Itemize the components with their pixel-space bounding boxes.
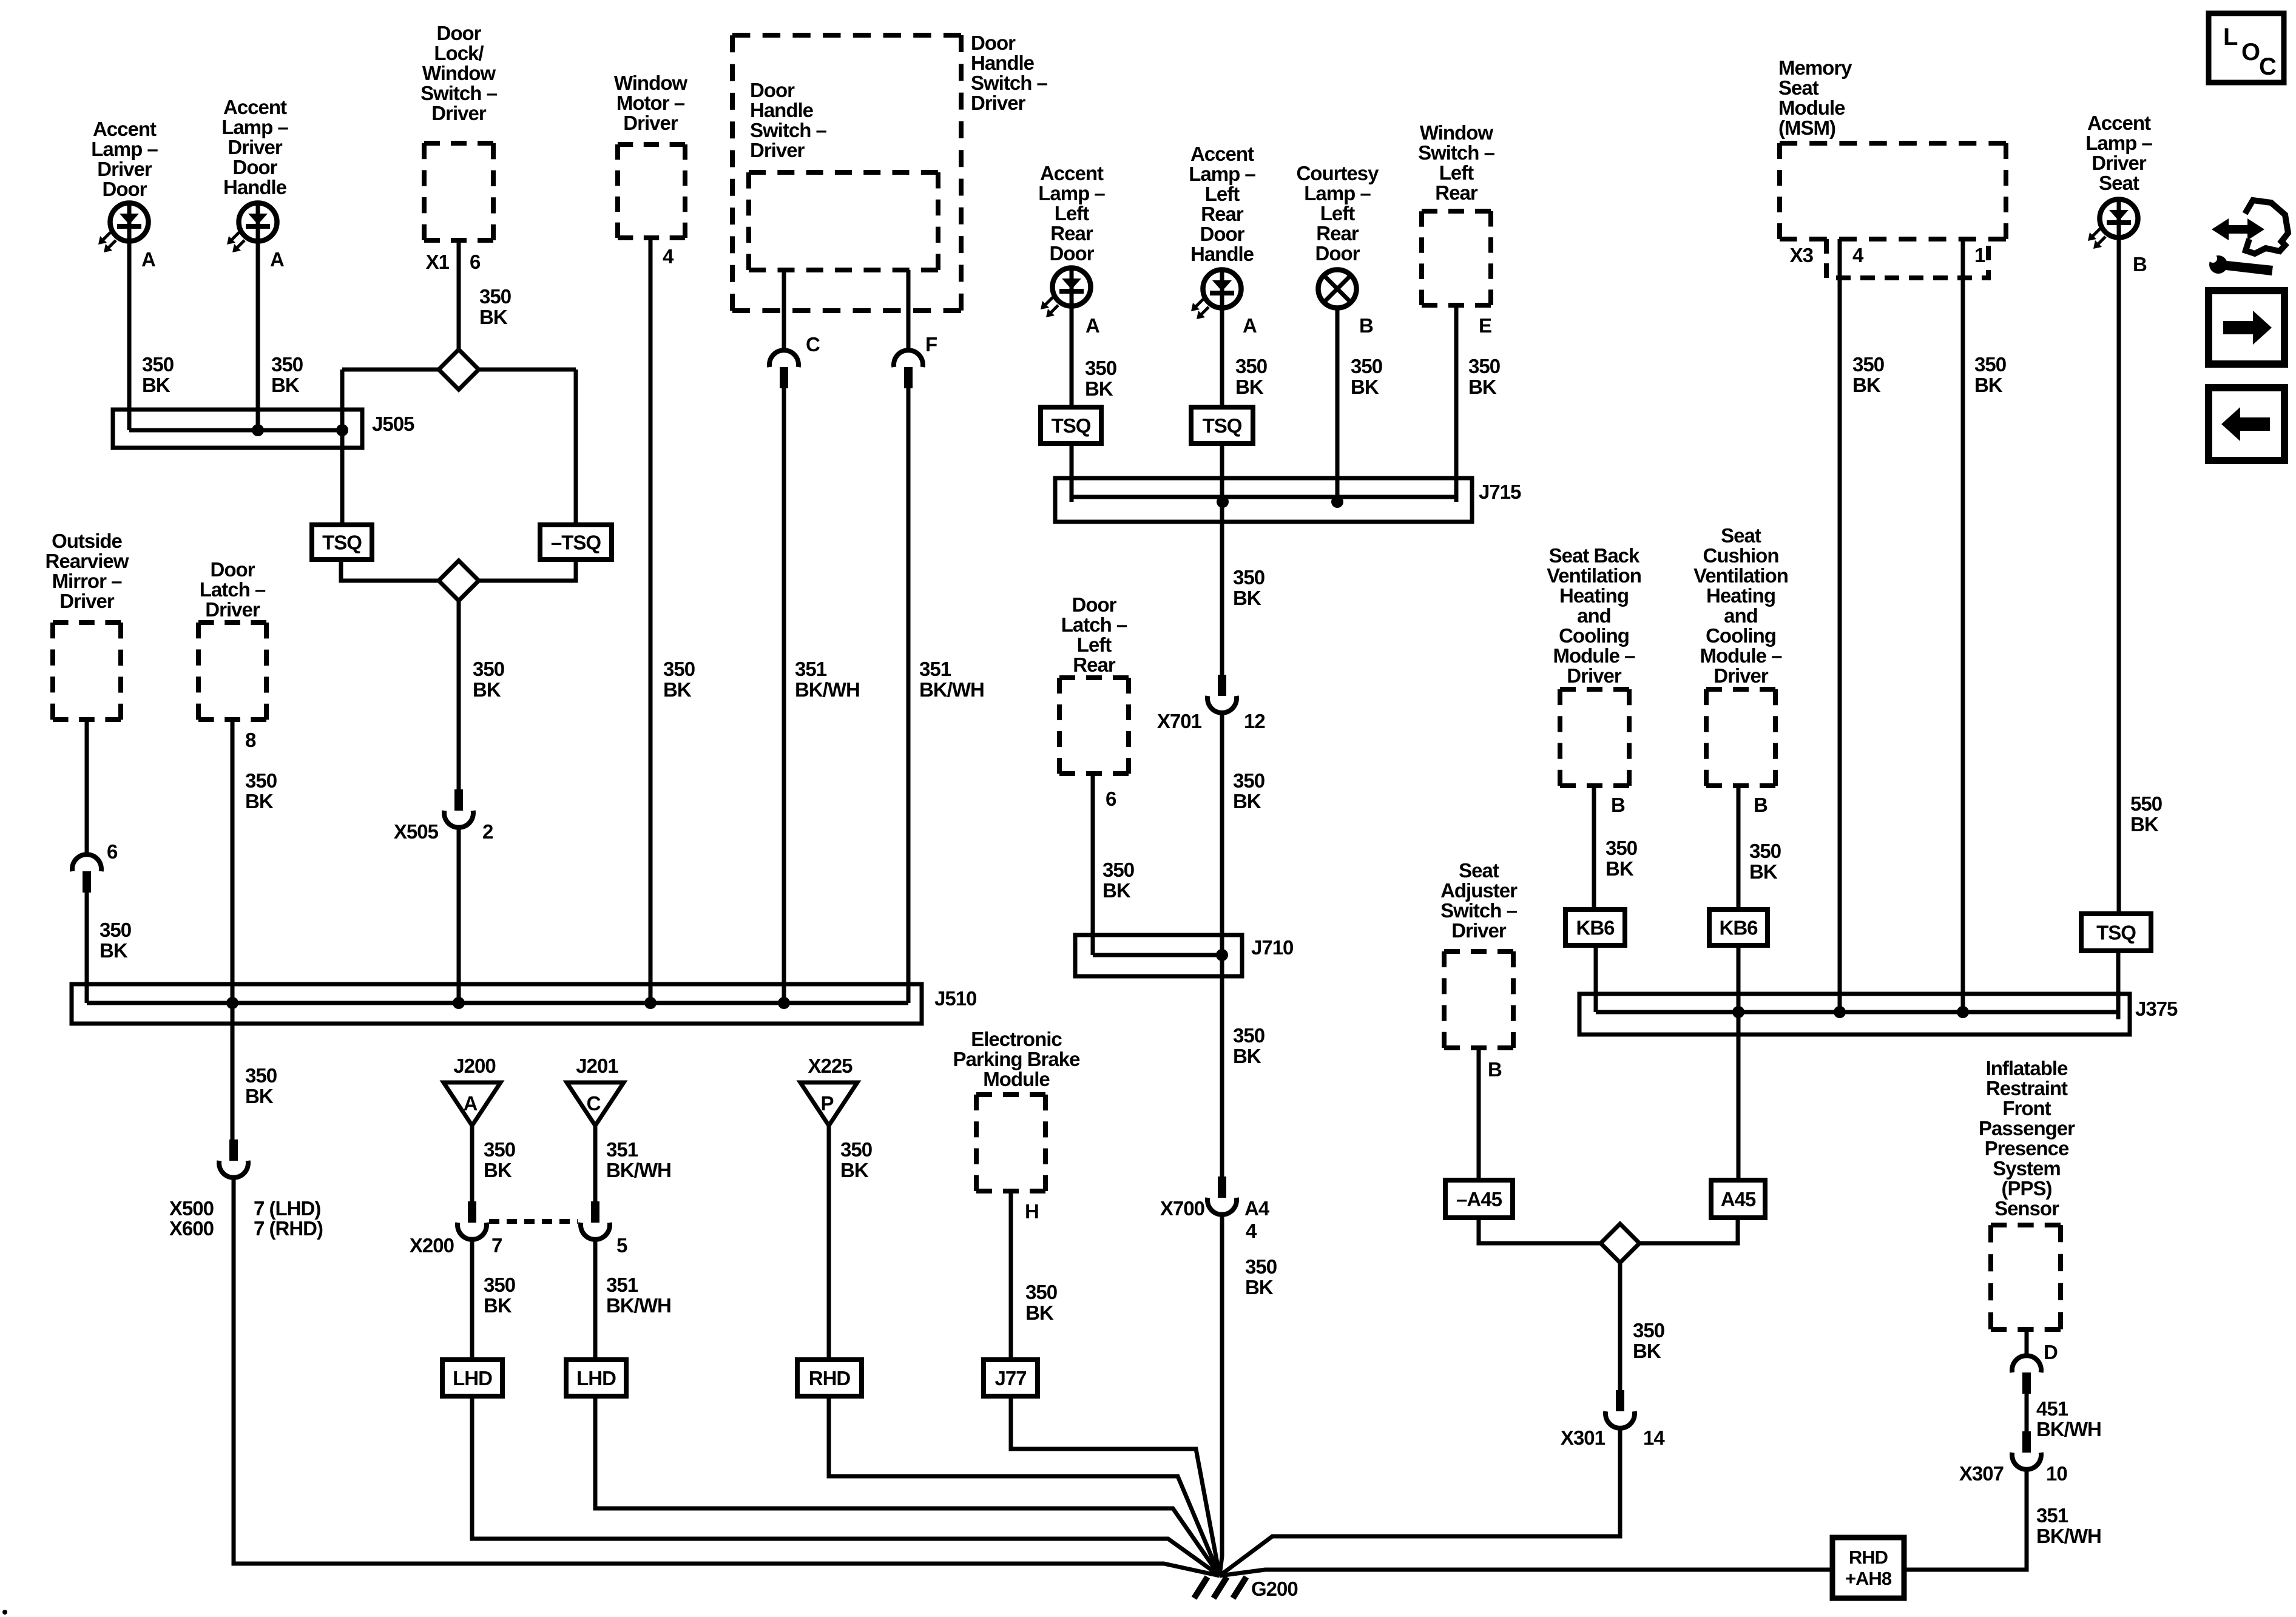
- svg-text:Accent: Accent: [1190, 143, 1254, 165]
- svg-text:F: F: [925, 333, 937, 356]
- svg-text:A: A: [141, 248, 155, 271]
- svg-text:12: 12: [1244, 710, 1265, 732]
- svg-text:350: 350: [1085, 357, 1116, 379]
- svg-text:14: 14: [1643, 1426, 1665, 1449]
- svg-text:BK: BK: [245, 1085, 274, 1107]
- svg-text:Seat: Seat: [1459, 859, 1499, 882]
- svg-text:Lamp –: Lamp –: [221, 116, 288, 138]
- svg-text:350: 350: [1351, 355, 1382, 377]
- svg-text:350: 350: [1749, 840, 1781, 862]
- svg-text:Driver: Driver: [750, 139, 805, 161]
- svg-text:X500: X500: [169, 1197, 214, 1220]
- svg-text:C: C: [587, 1092, 601, 1115]
- svg-text:Inflatable: Inflatable: [1986, 1057, 2068, 1079]
- svg-text:5: 5: [616, 1234, 627, 1257]
- svg-text:X3: X3: [1790, 244, 1814, 266]
- svg-text:Door: Door: [1200, 223, 1245, 245]
- svg-text:Latch –: Latch –: [1061, 613, 1127, 636]
- svg-text:BK: BK: [1974, 374, 2003, 396]
- svg-text:Driver: Driver: [623, 112, 678, 134]
- svg-text:Sensor: Sensor: [1994, 1197, 2059, 1220]
- svg-text:Restraint: Restraint: [1986, 1077, 2068, 1099]
- svg-text:Presence: Presence: [1985, 1137, 2069, 1160]
- svg-text:Door: Door: [211, 558, 255, 581]
- svg-text:Door: Door: [971, 32, 1016, 54]
- svg-text:B: B: [2133, 253, 2147, 275]
- svg-text:Module: Module: [983, 1068, 1050, 1090]
- svg-text:A: A: [270, 248, 284, 271]
- svg-text:X200: X200: [410, 1234, 454, 1257]
- svg-text:Rearview: Rearview: [46, 550, 129, 572]
- svg-text:KB6: KB6: [1576, 917, 1615, 939]
- svg-text:Latch –: Latch –: [200, 578, 266, 601]
- svg-text:Rear: Rear: [1050, 222, 1093, 245]
- svg-text:Lamp –: Lamp –: [1038, 182, 1105, 204]
- svg-text:350: 350: [1235, 355, 1267, 377]
- svg-text:–A45: –A45: [1456, 1188, 1502, 1210]
- svg-text:Cushion: Cushion: [1703, 544, 1779, 567]
- svg-text:A: A: [1243, 314, 1257, 337]
- svg-text:BK: BK: [245, 790, 274, 812]
- svg-text:350: 350: [1974, 353, 2006, 376]
- svg-text:Seat Back: Seat Back: [1549, 544, 1640, 567]
- svg-text:BK: BK: [1852, 374, 1881, 396]
- svg-text:Door: Door: [1315, 242, 1360, 265]
- svg-text:BK: BK: [142, 374, 171, 396]
- svg-text:X301: X301: [1561, 1426, 1606, 1449]
- svg-text:TSQ: TSQ: [322, 532, 362, 554]
- svg-text:B: B: [1359, 314, 1373, 337]
- svg-text:350: 350: [484, 1274, 515, 1296]
- svg-text:A: A: [1086, 314, 1099, 337]
- svg-text:X225: X225: [808, 1055, 853, 1077]
- svg-text:BK: BK: [2130, 813, 2159, 836]
- svg-text:350: 350: [1025, 1281, 1057, 1303]
- svg-text:BK/WH: BK/WH: [606, 1294, 671, 1317]
- svg-text:Front: Front: [2002, 1097, 2051, 1119]
- svg-text:Mirror –: Mirror –: [52, 570, 123, 592]
- svg-text:X600: X600: [169, 1217, 214, 1240]
- svg-text:8: 8: [245, 729, 256, 751]
- svg-text:Rear: Rear: [1435, 181, 1478, 204]
- svg-text:J201: J201: [576, 1055, 618, 1077]
- svg-text:J200: J200: [453, 1055, 495, 1077]
- svg-text:Adjuster: Adjuster: [1440, 879, 1518, 902]
- svg-text:350: 350: [840, 1138, 872, 1161]
- svg-text:350: 350: [1233, 566, 1264, 589]
- svg-text:Window: Window: [614, 72, 687, 94]
- svg-text:350: 350: [1633, 1319, 1664, 1342]
- svg-text:Passenger: Passenger: [1979, 1117, 2075, 1139]
- svg-text:BK/WH: BK/WH: [919, 678, 984, 701]
- svg-text:J505: J505: [372, 413, 414, 435]
- svg-text:C: C: [2259, 53, 2276, 80]
- svg-text:Courtesy: Courtesy: [1296, 162, 1379, 184]
- svg-text:BK: BK: [1633, 1340, 1661, 1362]
- svg-text:Heating: Heating: [1706, 584, 1775, 607]
- svg-text:and: and: [1577, 604, 1611, 627]
- svg-text:2: 2: [482, 820, 493, 843]
- svg-text:Electronic: Electronic: [971, 1028, 1062, 1050]
- svg-text:Switch –: Switch –: [971, 72, 1048, 94]
- svg-text:BK: BK: [1085, 377, 1113, 400]
- svg-text:A: A: [464, 1092, 478, 1115]
- svg-text:Lamp –: Lamp –: [2085, 132, 2152, 154]
- svg-text:KB6: KB6: [1719, 917, 1758, 939]
- svg-text:X701: X701: [1157, 710, 1202, 732]
- svg-text:Handle: Handle: [971, 52, 1035, 74]
- svg-text:Module –: Module –: [1553, 644, 1635, 667]
- svg-text:Door: Door: [750, 79, 795, 101]
- svg-text:P: P: [820, 1092, 833, 1115]
- svg-text:Switch –: Switch –: [420, 82, 498, 104]
- svg-text:and: and: [1724, 604, 1758, 627]
- svg-text:BK: BK: [1468, 376, 1497, 398]
- svg-text:LHD: LHD: [576, 1367, 616, 1389]
- svg-text:Driver: Driver: [431, 102, 487, 124]
- svg-text:Driver: Driver: [97, 158, 152, 180]
- svg-text:J710: J710: [1251, 936, 1293, 959]
- svg-text:Ventilation: Ventilation: [1693, 564, 1788, 587]
- svg-text:Ventilation: Ventilation: [1547, 564, 1641, 587]
- svg-text:J375: J375: [2135, 998, 2178, 1020]
- svg-text:Door: Door: [1050, 242, 1095, 265]
- svg-text:Driver: Driver: [1714, 664, 1769, 687]
- svg-text:Rear: Rear: [1316, 222, 1359, 245]
- svg-text:BK/WH: BK/WH: [795, 678, 860, 701]
- svg-text:350: 350: [479, 285, 511, 308]
- svg-text:10: 10: [2046, 1462, 2067, 1485]
- svg-text:Cooling: Cooling: [1559, 624, 1629, 647]
- svg-text:J715: J715: [1479, 481, 1521, 503]
- svg-text:Driver: Driver: [2092, 152, 2147, 174]
- svg-text:X307: X307: [1959, 1462, 2004, 1485]
- svg-text:BK: BK: [840, 1159, 869, 1181]
- svg-text:BK: BK: [473, 678, 501, 701]
- svg-text:Door: Door: [233, 156, 278, 178]
- svg-text:B: B: [1488, 1058, 1502, 1081]
- svg-text:350: 350: [1606, 837, 1637, 859]
- svg-text:G200: G200: [1251, 1578, 1298, 1600]
- svg-text:O: O: [2241, 39, 2260, 66]
- svg-text:B: B: [1754, 794, 1768, 816]
- svg-text:Left: Left: [1205, 183, 1240, 205]
- svg-text:Switch –: Switch –: [1440, 899, 1518, 922]
- svg-text:Door: Door: [437, 22, 482, 44]
- svg-text:Seat: Seat: [1721, 524, 1761, 547]
- svg-text:X700: X700: [1160, 1197, 1204, 1220]
- svg-text:BK: BK: [1245, 1276, 1274, 1298]
- svg-text:Seat: Seat: [2099, 172, 2139, 194]
- svg-text:Driver: Driver: [228, 136, 283, 158]
- svg-text:D: D: [2044, 1341, 2058, 1363]
- svg-text:7 (RHD): 7 (RHD): [254, 1217, 323, 1240]
- svg-text:350: 350: [245, 1064, 277, 1087]
- svg-text:Module –: Module –: [1700, 644, 1782, 667]
- svg-text:TSQ: TSQ: [1052, 414, 1091, 437]
- svg-text:Driver: Driver: [205, 598, 260, 621]
- svg-text:6: 6: [107, 840, 118, 863]
- svg-text:Cooling: Cooling: [1706, 624, 1776, 647]
- svg-text:350: 350: [1468, 355, 1500, 377]
- svg-text:7 (LHD): 7 (LHD): [254, 1197, 320, 1220]
- svg-text:Accent: Accent: [2087, 112, 2151, 134]
- svg-text:351: 351: [795, 658, 827, 680]
- svg-text:Left: Left: [1055, 202, 1090, 224]
- svg-text:Rear: Rear: [1073, 653, 1116, 676]
- svg-text:Accent: Accent: [1040, 162, 1104, 184]
- svg-text:RHD: RHD: [809, 1367, 851, 1389]
- svg-text:4: 4: [1246, 1220, 1257, 1242]
- svg-text:Lamp –: Lamp –: [1189, 163, 1255, 185]
- svg-text:Left: Left: [1439, 161, 1474, 184]
- svg-text:350: 350: [484, 1138, 515, 1161]
- svg-text:BK: BK: [484, 1294, 512, 1317]
- svg-text:350: 350: [1852, 353, 1884, 376]
- svg-text:351: 351: [919, 658, 951, 680]
- svg-text:Parking Brake: Parking Brake: [953, 1048, 1081, 1070]
- svg-text:L: L: [2223, 24, 2238, 50]
- svg-text:Switch –: Switch –: [1418, 141, 1495, 164]
- svg-text:TSQ: TSQ: [1203, 414, 1242, 437]
- svg-text:6: 6: [1106, 788, 1116, 810]
- svg-text:(PPS): (PPS): [2001, 1177, 2051, 1200]
- svg-text:TSQ: TSQ: [2096, 922, 2136, 944]
- svg-text:–TSQ: –TSQ: [551, 532, 601, 554]
- svg-text:J77: J77: [994, 1367, 1026, 1389]
- svg-text:BK/WH: BK/WH: [2036, 1418, 2101, 1440]
- svg-text:Window: Window: [1420, 121, 1493, 144]
- svg-text:+AH8: +AH8: [1845, 1568, 1892, 1589]
- svg-text:X505: X505: [394, 820, 439, 843]
- svg-text:BK: BK: [271, 374, 300, 396]
- svg-text:4: 4: [663, 245, 674, 268]
- svg-text:RHD: RHD: [1849, 1547, 1888, 1568]
- svg-text:Memory: Memory: [1778, 56, 1852, 79]
- svg-text:Driver: Driver: [1567, 664, 1622, 687]
- svg-text:Window: Window: [422, 62, 496, 84]
- svg-text:351: 351: [2036, 1504, 2068, 1527]
- svg-text:350: 350: [271, 353, 303, 376]
- svg-text:4: 4: [1852, 244, 1864, 266]
- svg-text:LHD: LHD: [453, 1367, 492, 1389]
- svg-text:BK: BK: [1351, 376, 1379, 398]
- svg-text:550: 550: [2130, 792, 2162, 815]
- svg-text:Handle: Handle: [750, 99, 814, 121]
- svg-text:Outside: Outside: [52, 530, 122, 552]
- svg-text:BK: BK: [1235, 376, 1264, 398]
- svg-text:C: C: [806, 333, 820, 356]
- svg-text:Lamp –: Lamp –: [91, 138, 158, 160]
- svg-text:A4: A4: [1244, 1197, 1270, 1220]
- svg-text:351: 351: [606, 1138, 638, 1161]
- svg-text:BK: BK: [1025, 1301, 1054, 1324]
- svg-text:Door: Door: [1072, 593, 1117, 616]
- svg-text:350: 350: [663, 658, 695, 680]
- svg-text:350: 350: [1102, 859, 1134, 881]
- svg-text:Lamp –: Lamp –: [1304, 182, 1371, 204]
- svg-text:350: 350: [1233, 1024, 1264, 1047]
- svg-text:Motor –: Motor –: [616, 92, 685, 114]
- svg-text:Driver: Driver: [59, 590, 115, 612]
- svg-text:Switch –: Switch –: [750, 119, 827, 141]
- svg-text:X1: X1: [426, 251, 450, 273]
- svg-text:System: System: [1993, 1157, 2060, 1180]
- svg-text:1: 1: [1974, 244, 1985, 266]
- svg-text:Left: Left: [1320, 202, 1356, 224]
- svg-text:BK: BK: [1749, 860, 1778, 883]
- svg-text:BK: BK: [1233, 1045, 1261, 1067]
- svg-text:6: 6: [470, 251, 481, 273]
- svg-text:A45: A45: [1721, 1188, 1756, 1210]
- svg-text:Accent: Accent: [93, 118, 157, 140]
- svg-text:BK: BK: [100, 939, 128, 962]
- svg-text:350: 350: [1245, 1255, 1277, 1278]
- svg-text:Lock/: Lock/: [434, 42, 484, 64]
- svg-text:BK/WH: BK/WH: [2036, 1525, 2101, 1547]
- svg-text:H: H: [1025, 1200, 1039, 1223]
- svg-text:BK: BK: [663, 678, 692, 701]
- svg-text:BK: BK: [479, 306, 508, 328]
- svg-text:Driver: Driver: [971, 92, 1026, 114]
- svg-text:350: 350: [245, 769, 277, 792]
- svg-text:BK/WH: BK/WH: [606, 1159, 671, 1181]
- svg-text:Left: Left: [1077, 633, 1112, 656]
- svg-text:E: E: [1479, 314, 1491, 337]
- svg-text:350: 350: [1233, 769, 1264, 792]
- svg-text:BK: BK: [484, 1159, 512, 1181]
- svg-text:Handle: Handle: [223, 176, 287, 198]
- svg-text:B: B: [1611, 794, 1625, 816]
- svg-text:BK: BK: [1102, 879, 1131, 902]
- svg-text:J510: J510: [934, 987, 976, 1010]
- svg-text:451: 451: [2036, 1397, 2068, 1420]
- svg-text:(MSM): (MSM): [1778, 116, 1835, 139]
- svg-text:350: 350: [473, 658, 504, 680]
- svg-text:BK: BK: [1233, 587, 1261, 609]
- svg-text:7: 7: [491, 1234, 502, 1257]
- svg-text:350: 350: [142, 353, 174, 376]
- svg-text:Seat: Seat: [1778, 76, 1819, 99]
- svg-text:351: 351: [606, 1274, 638, 1296]
- svg-text:Handle: Handle: [1190, 243, 1254, 265]
- svg-text:Accent: Accent: [223, 96, 287, 118]
- svg-text:Door: Door: [103, 178, 147, 200]
- svg-text:Rear: Rear: [1201, 203, 1244, 225]
- svg-text:Module: Module: [1778, 96, 1845, 119]
- svg-text:Heating: Heating: [1559, 584, 1629, 607]
- svg-text:BK: BK: [1606, 857, 1634, 880]
- svg-text:Driver: Driver: [1451, 919, 1507, 942]
- svg-text:350: 350: [100, 919, 131, 941]
- svg-text:BK: BK: [1233, 790, 1261, 812]
